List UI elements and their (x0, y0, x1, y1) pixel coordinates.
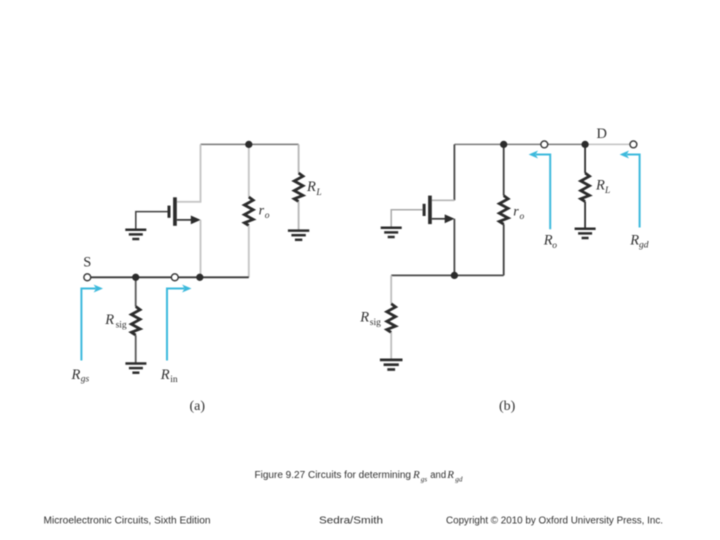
terminal: right open circle (b) (630, 141, 637, 148)
node: source junction dot (a) (196, 274, 203, 281)
svg-text:R: R (595, 177, 605, 193)
terminal: output open circle (b) (541, 141, 548, 148)
resistor R_sig (a) (135, 277, 137, 306)
wire: drain riser (a) (177, 144, 201, 201)
svg-text:r: r (259, 203, 265, 218)
node: source junction dot (b) (451, 272, 458, 279)
svg-text:R: R (543, 232, 553, 248)
arrow R_o measurement (b) (536, 155, 550, 230)
svg-text:o: o (265, 211, 270, 221)
ground: R_sig ground (b) (380, 360, 403, 370)
svg-text:R: R (71, 367, 81, 383)
ground: R_L ground (b) (575, 229, 596, 238)
resistor r_o (a) (248, 144, 250, 197)
wire: source lead with arrow (b) (432, 218, 447, 220)
svg-text:R: R (104, 312, 114, 328)
svg-text:R: R (629, 233, 639, 249)
svg-text:(a): (a) (190, 399, 206, 414)
resistor r_o (b) (503, 144, 505, 195)
resistor R_L (a) (298, 144, 300, 173)
wire: drain stub (b) (432, 199, 455, 201)
wire: source rail (a) (87, 276, 249, 278)
svg-text:Sedra/Smith: Sedra/Smith (319, 515, 383, 526)
wire: source lead with arrow (a) (177, 219, 193, 221)
svg-text:R: R (306, 179, 316, 195)
terminal S open circle (a) (84, 274, 91, 281)
transistor Q2 gate bar (b) (423, 204, 426, 216)
ground: gate ground (b) (381, 228, 402, 237)
svg-text:R: R (412, 469, 420, 481)
resistor R_sig (b) (390, 275, 392, 303)
transistor Q1 gate bar (a) (168, 206, 171, 218)
svg-text:o: o (552, 241, 557, 251)
svg-text:o: o (520, 212, 525, 222)
svg-text:(b): (b) (499, 399, 516, 414)
svg-text:L: L (315, 188, 321, 198)
ground: gate ground (a) (125, 230, 146, 239)
node: r_o top junction dot (b) (500, 141, 507, 148)
svg-text:and: and (430, 470, 446, 481)
arrow R_in measurement (a) (167, 289, 184, 361)
svg-text:L: L (604, 186, 610, 196)
ground: R_sig ground (a) (125, 364, 146, 373)
svg-text:gs: gs (421, 475, 428, 483)
svg-text:Figure 9.27 Circuits for deter: Figure 9.27 Circuits for determining (255, 470, 412, 481)
transistor Q1 channel bar (a) (173, 197, 177, 226)
wire: source riser (b) (453, 219, 455, 276)
svg-text:D: D (597, 126, 607, 142)
wire: drain riser (b) (453, 144, 455, 200)
svg-text:gd: gd (639, 240, 649, 250)
ground: R_L ground (a) (288, 231, 309, 240)
svg-text:in: in (170, 375, 178, 385)
wire: source riser (a) (200, 220, 202, 277)
svg-text:sig: sig (370, 318, 381, 328)
terminal: input open circle (a) (171, 274, 178, 281)
wire: gate lead to ground (a) (136, 212, 168, 229)
svg-text:sig: sig (116, 321, 127, 331)
wire: gate lead to ground (b) (391, 210, 422, 227)
svg-text:Microelectronic Circuits, Sixt: Microelectronic Circuits, Sixth Edition (44, 515, 211, 526)
svg-text:R: R (160, 367, 170, 383)
node: drain junction dot D (b) (581, 141, 588, 148)
arrow R_gd measurement (b) (627, 155, 640, 228)
svg-text:r: r (513, 205, 519, 220)
wire: top rail (b) (454, 143, 585, 145)
svg-text:S: S (83, 255, 91, 271)
svg-text:R: R (359, 310, 369, 326)
svg-text:Copyright © 2010 by Oxford Uni: Copyright © 2010 by Oxford University Pr… (446, 515, 663, 526)
wire: top rail right segment (b) (585, 143, 633, 145)
transistor Q2 channel bar (b) (428, 196, 432, 225)
node: drain junction dot (a) (245, 141, 252, 148)
wire: top rail (a) (201, 143, 299, 145)
svg-text:R: R (446, 469, 454, 481)
resistor R_L (b) (584, 144, 586, 173)
svg-text:gd: gd (455, 475, 463, 483)
svg-text:gs: gs (81, 374, 90, 384)
node: R_sig junction dot (a) (132, 274, 139, 281)
wire: source rail (b) (391, 274, 504, 276)
arrow R_gs measurement (a) (81, 289, 95, 361)
